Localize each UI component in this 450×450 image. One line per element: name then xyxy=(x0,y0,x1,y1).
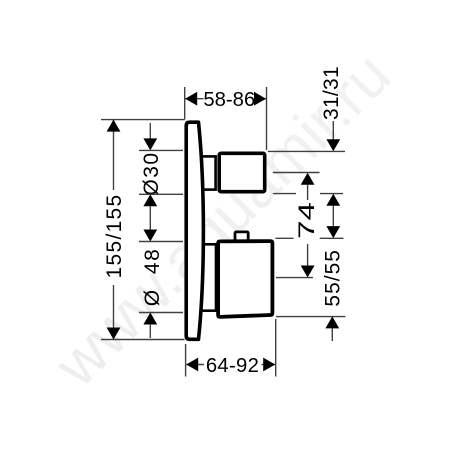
dimension 58-86: right arrowhead xyxy=(254,92,266,106)
dimension 55/55: down arrowhead at bottom knob top line xyxy=(326,226,340,238)
dimension Ø48: top tick xyxy=(139,241,183,243)
dimension Ø30: up arrowhead at bottom tick xyxy=(143,194,157,206)
svg-text:55/55: 55/55 xyxy=(321,249,344,307)
dimension Ø30: bottom tick xyxy=(139,193,183,195)
dimension 58-86: right extension line xyxy=(266,87,268,150)
dimension Ø48: up arrowhead at bottom tick xyxy=(143,313,157,325)
extension line: bottom knob top edge, left segment xyxy=(276,237,294,239)
dimension 64-92: line right segment xyxy=(262,364,276,366)
svg-text:58-86: 58-86 xyxy=(203,89,255,111)
dimension 31/31: down arrowhead at knob top line xyxy=(326,139,340,151)
dimension 64-92: right arrowhead xyxy=(263,358,275,372)
dimension 155/155: bottom tick xyxy=(101,339,185,341)
dimension 155/155: up arrowhead xyxy=(107,120,121,132)
button on bottom handle xyxy=(235,232,248,240)
svg-text:31/31: 31/31 xyxy=(320,66,343,120)
extension line: bottom knob top edge, right segment xyxy=(320,237,344,239)
dimension 58-86: left extension line xyxy=(184,87,186,120)
dimension Ø48: bottom tick xyxy=(139,312,183,314)
dimension 58-86: line right segment xyxy=(256,98,267,100)
dimension 74: lower shaft xyxy=(307,244,309,266)
dimension 74: up arrowhead at top knob centerline xyxy=(301,173,315,185)
dimension 64-92: line left segment xyxy=(187,364,205,366)
dimension 58-86: line left segment xyxy=(186,98,204,100)
dimension 58-86: left arrowhead xyxy=(185,92,197,106)
dimension 155/155: top tick xyxy=(101,119,185,121)
extension line: top knob bottom edge, right segment xyxy=(320,193,343,195)
dimension 31/31: up arrowhead at knob bottom line xyxy=(326,194,340,206)
top handle knob xyxy=(219,153,265,191)
dimension 55/55: lower shaft xyxy=(331,328,333,341)
dimension Ø48: lower shaft xyxy=(149,324,151,338)
dimension 74: down arrowhead at bottom knob centerline xyxy=(301,266,315,278)
svg-text:Ø 48: Ø 48 xyxy=(141,248,164,307)
escutcheon plate (side view) xyxy=(186,122,203,339)
bottom handle stem xyxy=(199,244,216,310)
svg-text:64-92: 64-92 xyxy=(206,355,259,377)
extension line: top knob top edge xyxy=(268,150,345,152)
dimension 74: upper shaft xyxy=(307,185,309,201)
dimension Ø30: top tick xyxy=(139,149,183,151)
svg-text:Ø30: Ø30 xyxy=(140,151,163,195)
extension line: top knob centerline xyxy=(273,172,320,174)
dimension 31/31: upper shaft xyxy=(332,121,334,140)
shared shaft between Ø30 and Ø48 xyxy=(149,206,151,230)
dimension 55/55: up arrowhead at bottom knob bottom line xyxy=(325,316,339,328)
extension line: bottom knob bottom edge xyxy=(276,316,346,318)
extension line: bottom knob centerline xyxy=(276,277,313,279)
svg-text:155/155: 155/155 xyxy=(103,193,126,278)
dimension 155/155: line upper segment xyxy=(113,120,115,190)
dimension 64-92: left arrowhead xyxy=(186,358,198,372)
dimension Ø48: down arrowhead at top tick xyxy=(143,230,157,242)
bottom handle knob xyxy=(218,241,272,317)
svg-text:74: 74 xyxy=(294,202,318,239)
extension line: top knob bottom edge, left segment xyxy=(273,193,296,195)
dimension Ø30: upper shaft xyxy=(149,123,151,140)
dimension 64-92: right extension line xyxy=(275,319,277,377)
top handle stem xyxy=(199,156,216,189)
dimension 155/155: line lower segment xyxy=(113,285,115,340)
dimension 155/155: down arrowhead xyxy=(107,328,121,340)
dimension 64-92: left extension line xyxy=(185,344,187,377)
shaft between 31/31 arrowheads xyxy=(332,206,334,228)
dimension Ø30: down arrowhead at top tick xyxy=(143,138,157,150)
